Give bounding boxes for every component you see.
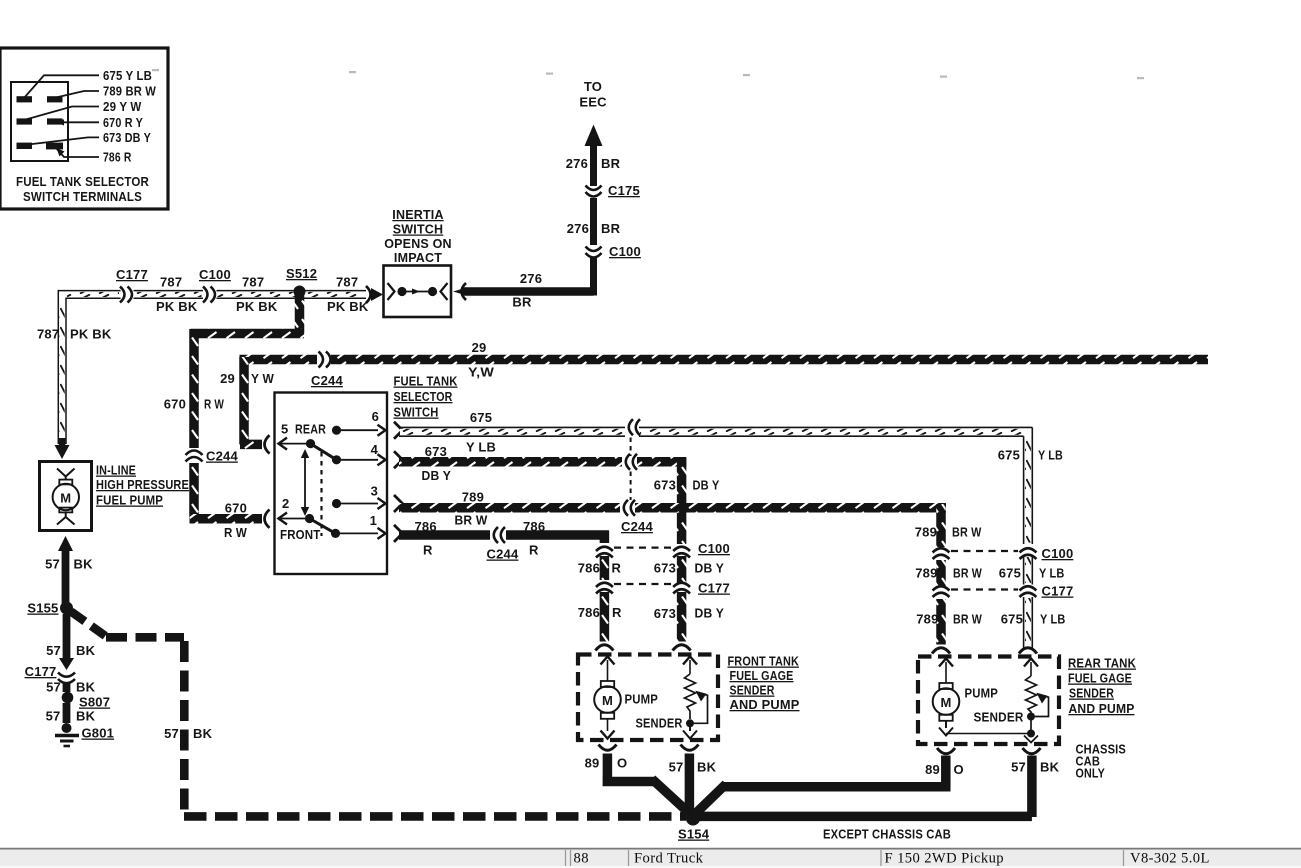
svg-text:29: 29 [472, 340, 487, 355]
svg-text:C100: C100 [1042, 546, 1074, 561]
svg-text:276: 276 [520, 271, 542, 286]
arrow wire 276 into inertia switch right side [453, 283, 466, 300]
svg-text:R W: R W [224, 525, 247, 540]
svg-text:Y W: Y W [251, 371, 274, 386]
svg-text:REAR TANK: REAR TANK [1068, 656, 1136, 671]
svg-text:BK: BK [76, 643, 96, 658]
wire S512 branch horizontal [190, 329, 304, 339]
connector C100 on 276 [586, 244, 641, 259]
svg-text:C100: C100 [199, 267, 231, 282]
svg-text:FUEL GAGE: FUEL GAGE [1068, 671, 1132, 686]
svg-text:673 DB Y: 673 DB Y [103, 130, 151, 145]
connector C175 [586, 183, 640, 198]
wire exit cap front sender [681, 745, 699, 751]
front tank box (dashed) [578, 655, 718, 741]
switch rear wiper [311, 444, 342, 465]
scan speck marks [152, 69, 1144, 79]
terminal pin 29 [17, 118, 33, 124]
terminal pin 673 [17, 143, 33, 149]
wire 786 R (solid) horizontal from pin 1 [399, 530, 609, 540]
fuel tank selector switch terminals legend box [0, 48, 168, 209]
wire 89 O front (solid) [603, 754, 689, 814]
svg-text:BR: BR [601, 156, 621, 171]
leader line 29 [24, 107, 99, 121]
inertia switch box [384, 266, 452, 318]
switch dashed link [320, 452, 322, 536]
svg-text:AND PUMP: AND PUMP [1069, 701, 1135, 716]
splice S512 [286, 266, 317, 298]
splice S154 [678, 811, 710, 841]
switch pin 5 line and label REAR [278, 422, 327, 450]
wire 789 vertical mid [936, 560, 946, 586]
svg-text:Y LB: Y LB [466, 440, 496, 455]
svg-text:6: 6 [372, 409, 379, 424]
connector C244 on 670 [186, 449, 239, 464]
svg-text:TO: TO [584, 79, 602, 94]
wire 789 vertical [936, 504, 946, 547]
svg-text:C244: C244 [621, 519, 653, 534]
svg-text:DB Y: DB Y [422, 468, 452, 483]
svg-text:BK: BK [697, 760, 717, 775]
wire 670 R W vertical upper [189, 329, 199, 448]
wire 29 Y W vertical down to pin 5 [239, 357, 249, 444]
front tank sender resistor [683, 674, 708, 739]
svg-text:787: 787 [37, 327, 59, 342]
switch pin 2 line and label FRONT [278, 496, 321, 542]
svg-text:786 R: 786 R [103, 150, 132, 165]
connector C244 on 675 [629, 419, 640, 435]
svg-text:88: 88 [574, 851, 589, 867]
wire 57 BK below S155 [63, 614, 71, 658]
svg-text:IMPACT: IMPACT [394, 251, 442, 265]
svg-text:2: 2 [282, 496, 289, 511]
arrow to EEC [585, 125, 603, 147]
wire end cap 673 [673, 645, 691, 651]
wire 276 BR to EEC (solid) [461, 142, 594, 296]
svg-text:REAR: REAR [295, 422, 326, 437]
arrow wire 787 down into in-line fuel pump [55, 438, 70, 459]
svg-text:S154: S154 [678, 827, 710, 842]
connector C244 on 789 [624, 500, 635, 516]
svg-text:89: 89 [925, 762, 940, 777]
wire exit cap rear pump [937, 748, 955, 754]
svg-text:Ford Truck: Ford Truck [634, 851, 704, 867]
svg-text:BR W: BR W [953, 612, 982, 627]
svg-text:57: 57 [45, 557, 60, 572]
svg-text:S807: S807 [79, 695, 110, 710]
leader line 673 [24, 137, 99, 145]
svg-text:R: R [612, 561, 622, 576]
wire 786 vertical lower [600, 592, 610, 642]
svg-text:EXCEPT CHASSIS CAB: EXCEPT CHASSIS CAB [823, 827, 951, 842]
svg-text:1: 1 [370, 513, 377, 528]
svg-text:5: 5 [281, 422, 288, 437]
switch pin 6 line [332, 409, 386, 436]
wire 789 BR W (thick hatched) horizontal [399, 503, 946, 513]
leader line 670 [56, 121, 99, 123]
svg-text:FUEL PUMP: FUEL PUMP [96, 493, 163, 508]
connector C244 on 29 Y W [311, 352, 343, 389]
svg-text:670: 670 [164, 397, 186, 412]
bottom info bar [0, 849, 1301, 868]
svg-text:675: 675 [1001, 612, 1023, 627]
wire 786 vertical mid [600, 556, 610, 580]
pump motor M [57, 469, 75, 481]
svg-text:675: 675 [999, 566, 1021, 581]
wire 29 Y W long horizontal (thick hatched) [240, 355, 1209, 365]
svg-text:M: M [602, 693, 613, 708]
wire 673 vertical lower [677, 592, 687, 642]
terminal pin 675 [17, 96, 33, 102]
wire 29 Y W short horizontal into pin 5 [240, 440, 262, 450]
switch pin 3 line [332, 484, 386, 510]
svg-text:C175: C175 [608, 183, 640, 198]
wire rear 57 BK vertical [1027, 756, 1037, 818]
svg-text:BR W: BR W [953, 566, 982, 581]
leader line 786 [56, 148, 99, 157]
svg-text:HIGH PRESSURE: HIGH PRESSURE [96, 477, 189, 492]
arrow wire 57 BK up into pump box [58, 536, 73, 604]
svg-text:89: 89 [585, 756, 600, 771]
svg-text:57: 57 [669, 760, 684, 775]
svg-text:FUEL TANK: FUEL TANK [394, 374, 458, 389]
svg-text:Y LB: Y LB [1039, 566, 1065, 581]
connector C100 front pair (786/673) [596, 541, 730, 558]
rear tank box (dashed) [918, 657, 1059, 745]
connector C244 on 786 [494, 527, 505, 543]
svg-text:BR: BR [512, 295, 532, 310]
svg-text:G801: G801 [82, 726, 115, 741]
svg-text:C100: C100 [698, 541, 730, 556]
connector C100 on wire 787 [199, 267, 231, 303]
leader line 789 [56, 91, 99, 98]
svg-text:789: 789 [915, 566, 937, 581]
front tank pump entry arrow [601, 657, 615, 682]
svg-text:786: 786 [578, 561, 600, 576]
svg-text:O: O [617, 756, 627, 771]
wire 673 vertical mid [677, 556, 687, 583]
svg-text:675: 675 [998, 448, 1020, 463]
connector C100 rear pair (789/675) [933, 546, 1074, 561]
svg-text:57: 57 [46, 709, 61, 724]
wire 789 vertical lower [936, 599, 946, 645]
rear tank pump motor [933, 683, 960, 736]
svg-text:786: 786 [578, 605, 600, 620]
svg-text:29 Y W: 29 Y W [103, 99, 142, 114]
svg-text:R W: R W [204, 397, 224, 412]
svg-text:PUMP: PUMP [625, 692, 659, 707]
rear tank sender resistor [1026, 676, 1049, 721]
svg-text:789: 789 [916, 612, 938, 627]
wire 786 vertical upper [600, 531, 610, 544]
svg-text:FRONT TANK: FRONT TANK [728, 654, 800, 669]
svg-text:BK: BK [74, 557, 94, 572]
svg-text:3: 3 [371, 484, 378, 499]
svg-text:SENDER: SENDER [636, 716, 683, 731]
svg-text:57: 57 [46, 680, 61, 695]
rear tank sender entry arrow [1024, 659, 1038, 677]
switch pin 1 line [339, 513, 386, 539]
svg-text:R: R [423, 543, 433, 558]
wire exit cap rear sender [1023, 748, 1041, 754]
svg-text:R: R [529, 543, 539, 558]
svg-text:4: 4 [371, 442, 379, 457]
svg-text:SENDER: SENDER [974, 710, 1024, 725]
svg-text:Y,W: Y,W [468, 365, 495, 380]
terminal pin 786 [46, 143, 63, 150]
svg-text:673: 673 [425, 444, 447, 459]
svg-text:C244: C244 [487, 547, 519, 562]
svg-text:DB Y: DB Y [695, 606, 725, 621]
svg-text:BK: BK [193, 726, 213, 741]
svg-text:787: 787 [336, 275, 358, 290]
svg-text:789: 789 [462, 490, 484, 505]
svg-text:29: 29 [220, 371, 235, 386]
svg-text:C100: C100 [609, 244, 641, 259]
terminal pin 789 [47, 96, 63, 102]
svg-text:SWITCH TERMINALS: SWITCH TERMINALS [23, 189, 142, 204]
svg-text:670 R Y: 670 R Y [103, 115, 143, 130]
svg-text:276: 276 [567, 221, 589, 236]
splice S807 [62, 692, 110, 710]
svg-text:SELECTOR: SELECTOR [394, 389, 453, 404]
ground G801 [55, 723, 114, 746]
svg-text:M: M [60, 491, 71, 506]
svg-text:BK: BK [1040, 760, 1060, 775]
svg-text:673: 673 [654, 606, 676, 621]
wire 57 BK front (solid) [685, 754, 695, 813]
svg-text:789: 789 [915, 525, 937, 540]
svg-text:786: 786 [415, 519, 437, 534]
svg-text:787: 787 [242, 275, 264, 290]
wire 57 BK segment [63, 703, 71, 723]
wire end cap 675 [1019, 648, 1037, 654]
leader line 675 [24, 75, 99, 98]
terminal pin 670 [47, 118, 63, 124]
dashed link C244 group lower [630, 472, 632, 501]
svg-text:SWITCH: SWITCH [394, 405, 439, 420]
svg-text:PUMP: PUMP [965, 686, 999, 701]
svg-text:C177: C177 [1042, 584, 1074, 599]
svg-text:FUEL TANK SELECTOR: FUEL TANK SELECTOR [16, 174, 149, 189]
svg-text:R: R [612, 605, 622, 620]
svg-text:57: 57 [1011, 760, 1026, 775]
svg-text:786: 786 [523, 519, 545, 534]
svg-text:789 BR W: 789 BR W [103, 84, 156, 99]
svg-text:SENDER: SENDER [1069, 686, 1114, 701]
svg-text:C177: C177 [698, 581, 730, 596]
svg-text:BK: BK [76, 709, 96, 724]
fuel tank selector switch box [275, 393, 388, 575]
svg-text:673: 673 [654, 561, 676, 576]
wire from S512 down (thick hatched) [295, 294, 305, 334]
svg-text:670: 670 [225, 501, 247, 516]
inertia switch contacts [388, 283, 395, 300]
svg-text:SWITCH: SWITCH [393, 223, 444, 237]
front tank sender entry arrow [683, 657, 697, 675]
dashed link C244 group upper [630, 438, 632, 457]
svg-text:INERTIA: INERTIA [392, 208, 443, 222]
dashed ground run from S155 [71, 612, 686, 817]
svg-text:F 150 2WD Pickup: F 150 2WD Pickup [885, 851, 1005, 867]
svg-text:Y LB: Y LB [1038, 448, 1063, 463]
wire start curls at switch pins 6,4,3,1 [394, 422, 403, 542]
svg-text:O: O [954, 762, 964, 777]
svg-text:C244: C244 [206, 449, 238, 464]
in-line high pressure fuel pump box [40, 462, 92, 531]
svg-text:ONLY: ONLY [1076, 766, 1106, 781]
wire 57 BK segment [63, 682, 71, 692]
switch double-headed arrow [301, 449, 309, 516]
svg-text:PK BK: PK BK [70, 327, 112, 342]
wire end cap 789 [932, 648, 950, 654]
svg-text:675: 675 [470, 410, 492, 425]
svg-text:BK: BK [76, 680, 96, 695]
svg-text:C244: C244 [311, 373, 343, 388]
wire 787 PK BK (thin hatched, left vertical + horizontal run to inertia switch) [58, 291, 366, 444]
wire end curl 29 at pin 5 [265, 435, 270, 453]
svg-text:C177: C177 [25, 664, 57, 679]
svg-text:OPENS ON: OPENS ON [384, 237, 452, 251]
svg-text:SENDER: SENDER [730, 683, 775, 698]
svg-text:S155: S155 [27, 601, 58, 616]
wire end cap 786 [595, 645, 613, 651]
label CHASSIS CAB ONLY [1076, 742, 1127, 781]
switch pin 4 line [340, 442, 386, 465]
connector C177 rear pair [933, 584, 1074, 599]
svg-text:BR: BR [601, 221, 621, 236]
wire exit cap front pump [599, 745, 617, 751]
arrow down into C177 [59, 658, 74, 670]
wire 673 vertical [677, 458, 687, 544]
svg-text:BR W: BR W [455, 513, 488, 528]
wire from S154 right to rear sender (solid) [698, 812, 1032, 822]
svg-text:57: 57 [164, 726, 179, 741]
connector C244 on 673 [626, 454, 637, 470]
wire 675 Y LB (thin hatched): horizontal from pin 6 and vertical at right [399, 427, 1032, 649]
svg-text:S512: S512 [286, 266, 317, 281]
svg-text:AND PUMP: AND PUMP [730, 697, 800, 712]
svg-text:276: 276 [566, 156, 588, 171]
svg-text:C177: C177 [116, 267, 148, 282]
svg-text:673: 673 [654, 478, 676, 493]
front tank pump motor [594, 681, 621, 739]
svg-text:FRONT: FRONT [280, 527, 321, 542]
svg-text:PK BK: PK BK [327, 299, 369, 314]
wire 673 DB Y (thick hatched) horizontal [399, 457, 686, 467]
svg-text:PK BK: PK BK [236, 299, 278, 314]
wire rear 89 O: vertical, horizontal run to S154 diagonal [696, 756, 951, 814]
svg-text:IN-LINE: IN-LINE [96, 463, 136, 478]
svg-text:M: M [940, 695, 951, 710]
wire 670 R W vertical lower [189, 463, 199, 519]
svg-text:Y LB: Y LB [1040, 612, 1066, 627]
svg-text:DB Y: DB Y [695, 561, 725, 576]
svg-text:V8-302 5.0L: V8-302 5.0L [1130, 851, 1210, 867]
svg-text:57: 57 [46, 643, 61, 658]
svg-text:EEC: EEC [579, 95, 607, 110]
splice S155 [27, 601, 73, 616]
connector C177 (left chain) [25, 664, 75, 683]
terminal connector body [11, 82, 68, 161]
svg-text:787: 787 [160, 275, 182, 290]
svg-text:FUEL GAGE: FUEL GAGE [730, 668, 794, 683]
connector C177 on wire 787 [116, 267, 148, 303]
svg-text:DB Y: DB Y [693, 478, 720, 493]
connector C177 front pair [596, 581, 730, 596]
rear tank link line pump-sender [946, 717, 1038, 743]
svg-text:675 Y LB: 675 Y LB [103, 68, 152, 83]
wire end curl 670 at pin 2 [265, 510, 270, 528]
svg-text:BR W: BR W [952, 525, 982, 540]
switch front wiper [310, 519, 341, 539]
svg-text:PK BK: PK BK [156, 299, 198, 314]
rear tank pump entry arrow [939, 659, 953, 684]
arrow wire 787 into inertia switch [366, 286, 383, 303]
wire 670 R W horizontal into pin 2 [190, 514, 263, 524]
